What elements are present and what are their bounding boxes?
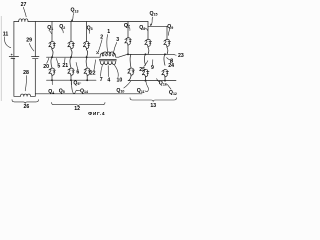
- svg-text:Q1: Q1: [47, 25, 53, 31]
- svg-text:21: 21: [62, 63, 68, 69]
- svg-text:ФИГ.4: ФИГ.4: [88, 111, 105, 117]
- transformer core: [99, 60, 116, 61]
- junction node right bus at Q12: [164, 80, 166, 82]
- svg-text:Q8: Q8: [139, 25, 145, 31]
- svg-text:+: +: [11, 53, 13, 57]
- leader Q16: [157, 79, 159, 82]
- svg-text:Q16: Q16: [159, 81, 167, 87]
- svg-text:Q3: Q3: [87, 25, 93, 31]
- svg-text:Q10: Q10: [116, 88, 124, 94]
- svg-text:22: 22: [90, 70, 96, 76]
- junction node bottom bus at Q14: [86, 79, 88, 81]
- transistor Q5: [68, 68, 75, 76]
- wire: cap29 branch: [34, 22, 36, 97]
- wire: mid rail / node 22 bus: [47, 54, 175, 57]
- svg-text:Q15: Q15: [150, 11, 158, 17]
- junction node mid-rail at Q1/Q4 column: [51, 56, 53, 58]
- svg-text:29: 29: [26, 38, 32, 44]
- transistor Q9: [164, 39, 171, 47]
- transistor Q4 column: [51, 57, 52, 68]
- wire: right top rail: [148, 22, 167, 27]
- transistor Q2 column: [70, 22, 72, 42]
- leader 5: [57, 58, 59, 63]
- junction node mid-rail at Q2/Q5 column: [70, 56, 72, 58]
- leader 2: [98, 40, 102, 52]
- svg-text:Q4: Q4: [48, 89, 54, 95]
- secondary lead 10: [115, 65, 119, 76]
- leader Q8: [145, 28, 148, 31]
- svg-text:Q11: Q11: [137, 88, 145, 94]
- svg-text:11: 11: [3, 32, 9, 38]
- wire: top rail: [28, 21, 148, 23]
- junction node mid-rail at Q7 column: [127, 53, 129, 55]
- svg-text:23: 23: [178, 53, 184, 59]
- transistor Q1: [49, 41, 56, 49]
- leader Q1: [49, 30, 52, 33]
- svg-text:1: 1: [107, 29, 110, 35]
- leader Q5: [70, 80, 72, 84]
- leader 27: [23, 7, 26, 17]
- svg-text:Q14: Q14: [80, 88, 88, 94]
- svg-text:Q9: Q9: [167, 24, 173, 30]
- transistor Q11 column: [144, 54, 145, 65]
- leader 29: [29, 43, 34, 51]
- leader Q6: [79, 82, 81, 84]
- transformer primary winding 1: [100, 52, 116, 57]
- wire: left rail: [13, 22, 15, 97]
- inductor 28: [21, 94, 31, 96]
- label Q14: [77, 90, 79, 92]
- capacitor input +: [9, 56, 18, 58]
- transistor Q11: [142, 69, 149, 77]
- svg-text:Q5: Q5: [59, 88, 65, 94]
- wire: right bottom bus: [128, 80, 176, 82]
- junction node bottom bus at Q5: [70, 79, 72, 81]
- capacitor C29: [32, 57, 40, 59]
- svg-text:26: 26: [24, 104, 30, 110]
- transistor Q3: [83, 41, 90, 49]
- junction node mid-rail at Q8/Q11 column: [145, 53, 147, 55]
- wire: right mid rail end arrow 23: [174, 54, 176, 57]
- svg-text:20: 20: [43, 64, 49, 70]
- transistor Q10 column: [129, 54, 132, 68]
- junction node right bus at Q11: [145, 80, 147, 82]
- leader Q7: [128, 27, 131, 30]
- svg-text:4: 4: [107, 77, 110, 83]
- leader 22: [94, 60, 96, 71]
- transistor Q7: [125, 38, 132, 46]
- leader Q2: [62, 29, 63, 33]
- svg-text:13: 13: [150, 103, 156, 109]
- leader 6: [76, 62, 78, 69]
- svg-text:Q7: Q7: [124, 23, 130, 29]
- transistor Q1 column: [51, 22, 53, 42]
- leader Q14 squiggle: [71, 81, 77, 94]
- secondary lead 7: [101, 65, 103, 76]
- svg-text:Q13: Q13: [71, 8, 79, 14]
- leader Q13 with arrow: [72, 13, 74, 21]
- transistor Q5 column: [70, 57, 71, 68]
- leader Q4: [51, 80, 53, 84]
- svg-text:6: 6: [76, 69, 79, 75]
- svg-text:Q12: Q12: [169, 90, 177, 96]
- brace 13: [130, 98, 177, 102]
- svg-text:7: 7: [100, 77, 103, 83]
- leader 3: [114, 42, 117, 52]
- wire: top-left segment to inductor: [14, 21, 19, 23]
- transistor Q14: [84, 68, 91, 76]
- svg-text:12: 12: [74, 106, 80, 112]
- leader Q10: [124, 81, 131, 88]
- leader 28: [25, 76, 26, 91]
- transistor Q8: [145, 39, 152, 47]
- leader 9: [151, 60, 153, 65]
- leader Q11 squiggle: [145, 81, 148, 92]
- leader 11: [4, 37, 10, 48]
- brace 26: [12, 100, 39, 104]
- leader Q9: [169, 29, 170, 35]
- leader Q15 with arrow: [151, 17, 153, 25]
- transistor Q12: [162, 69, 169, 77]
- transformer secondary winding: [100, 61, 116, 64]
- transistor Q2: [68, 41, 75, 49]
- junction node mid-rail at Q9/Q12 column: [164, 53, 166, 55]
- svg-text:9: 9: [151, 65, 154, 71]
- junction node bottom bus at Q4: [51, 79, 53, 81]
- leader 1: [106, 35, 109, 52]
- transistor Q4: [49, 68, 56, 76]
- leader 8: [167, 58, 170, 60]
- leader 21: [63, 58, 66, 63]
- transistor Q3 column: [86, 22, 88, 42]
- junction node mid-rail at Q3/Q14 column: [86, 56, 88, 58]
- wire: middle bottom bus: [47, 79, 97, 81]
- svg-text:5: 5: [57, 63, 60, 69]
- svg-text:10: 10: [117, 78, 123, 84]
- svg-text:25: 25: [139, 67, 145, 73]
- svg-text:8: 8: [170, 58, 173, 64]
- svg-text:Q6: Q6: [73, 80, 79, 86]
- leader Q12: [167, 84, 171, 89]
- leader 24: [169, 60, 171, 63]
- leader 20: [47, 58, 49, 63]
- transistor Q8 column: [147, 26, 149, 39]
- node x mark: [96, 51, 98, 53]
- secondary lead 4 (tap): [107, 66, 109, 77]
- transistor Q12 column: [164, 54, 165, 65]
- leader Q3: [88, 30, 90, 33]
- wire: bottom-left: [14, 95, 35, 97]
- transistor Q7 column: [127, 22, 129, 38]
- inductor 27: [19, 19, 28, 22]
- page scan edge line: [0, 16, 2, 101]
- transistor Q9 column: [166, 26, 168, 39]
- transistor Q14 column: [86, 57, 87, 68]
- wire: bottom rail: [35, 93, 142, 95]
- leader 25: [144, 61, 148, 67]
- transistor Q10: [128, 68, 135, 76]
- brace 12: [52, 102, 106, 106]
- svg-text:28: 28: [23, 70, 29, 76]
